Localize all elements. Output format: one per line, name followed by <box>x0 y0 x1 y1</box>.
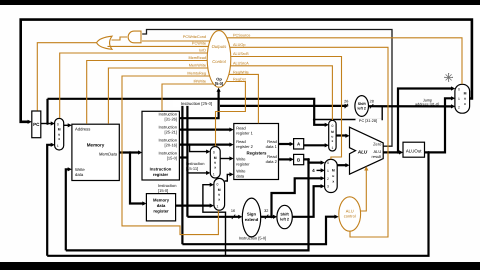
svg-text:32: 32 <box>264 209 268 213</box>
register Memory data register <box>146 194 175 221</box>
circle jump Shift left 2 <box>355 96 369 117</box>
svg-text:0: 0 <box>217 182 219 186</box>
wire ALUOut feedback riser into IorD mux input1 <box>47 145 53 256</box>
svg-text:MemtoReg: MemtoReg <box>187 71 206 75</box>
letterbox top bar <box>0 0 480 5</box>
junction PC[31-28] tap <box>313 118 316 121</box>
svg-text:Control: Control <box>212 59 227 64</box>
svg-text:[20-16]: [20-16] <box>165 143 177 148</box>
svg-text:Memory: Memory <box>153 198 170 203</box>
svg-text:16: 16 <box>231 209 235 213</box>
register Instruction register <box>142 111 179 180</box>
svg-text:ALUOut: ALUOut <box>406 148 422 153</box>
wire PC main line across to ALUSrcA mux input 0 <box>48 99 327 125</box>
register PC <box>32 111 41 138</box>
wire ALUSrcA out to ALU <box>336 134 347 136</box>
svg-text:Memory: Memory <box>87 143 105 148</box>
svg-text:PC: PC <box>33 122 40 127</box>
register A <box>294 139 304 149</box>
register ALUOut <box>403 142 425 157</box>
wire bottom bus1 B register to memory write data <box>66 159 309 250</box>
wire IorD mux out to Memory Address <box>64 124 70 126</box>
svg-text:register: register <box>236 161 250 166</box>
mux PCSource <box>455 84 470 113</box>
control left signal MemWrite <box>108 68 207 124</box>
wire 4 to ALUSrcB input1 <box>317 169 323 171</box>
svg-text:M: M <box>332 169 335 173</box>
svg-text:Zero: Zero <box>373 142 382 147</box>
wire Read data 1 to A <box>279 143 292 145</box>
svg-text:28: 28 <box>370 100 374 104</box>
svg-text:IRWrite: IRWrite <box>193 79 206 83</box>
wire sign extend out to shift left 2 <box>261 216 275 218</box>
svg-text:PCSource: PCSource <box>233 34 250 38</box>
junction Instruction[20-16] tap <box>188 143 190 145</box>
svg-text:address [31-0]: address [31-0] <box>415 102 439 106</box>
node PC[31-28] label <box>356 119 382 123</box>
control left signal MemtoReg <box>122 76 218 235</box>
junction ALUOut split <box>427 151 430 154</box>
svg-text:2: 2 <box>327 177 329 181</box>
wire MDR out to MemtoReg mux input1 <box>176 205 212 207</box>
mux MemtoReg <box>214 178 225 210</box>
mux ALUSrcB <box>325 159 338 192</box>
wire IR[25-21] to Read register 1 <box>179 129 231 131</box>
alu ALU <box>350 127 384 174</box>
svg-text:data: data <box>236 173 245 178</box>
wire PC out to IorD mux and riser to main PC line <box>41 123 53 125</box>
circle Shift left 2 <box>277 205 292 228</box>
wire ALUOut out to PCSource input1 <box>425 98 453 152</box>
wire Zero from ALU to AND gate <box>142 30 392 147</box>
svg-text:register: register <box>153 172 169 177</box>
svg-text:ALUOp: ALUOp <box>233 43 245 47</box>
control right signal ALUSrcB <box>231 57 342 160</box>
wire OR out to PC enable <box>37 43 96 111</box>
svg-text:left 2: left 2 <box>280 217 289 221</box>
svg-text:[5-0]: [5-0] <box>215 81 224 86</box>
mux IorD <box>55 118 64 150</box>
svg-text:u: u <box>464 97 466 101</box>
wire vertical v1 from bus down to Instr5-0 line <box>181 106 183 244</box>
register B <box>294 154 304 164</box>
svg-text:register: register <box>153 208 169 213</box>
control right signal RegDst <box>216 82 246 147</box>
wire Instruction[5-0] line to ALU control <box>182 217 336 245</box>
svg-text:x: x <box>58 137 60 141</box>
svg-text:0: 0 <box>331 124 333 128</box>
wire sign extend up path to ALUSrcB input2 <box>272 178 323 217</box>
wire [15-11] tap to RegDst mux input1 <box>187 172 208 174</box>
control left signal PCWriteCond <box>142 40 210 42</box>
oval ALU control <box>339 197 361 231</box>
wire PC feedback loop from PCSource mux around top to PC <box>21 20 472 122</box>
wire vertical v2 from bus down to sign extend row <box>186 106 188 217</box>
svg-text:x: x <box>332 139 334 143</box>
gate AND <box>128 31 141 43</box>
wire Instruction[25-0] bus to jump shift <box>181 105 346 107</box>
svg-text:0: 0 <box>213 150 215 154</box>
svg-text:Shift: Shift <box>280 213 289 217</box>
wire ALU control output to ALU <box>361 169 367 211</box>
node snowflake marker <box>444 73 453 82</box>
wire bottom bus2 ALUOut feedback <box>47 152 428 255</box>
svg-text:x: x <box>214 165 216 169</box>
control right signal PCSource <box>227 38 462 84</box>
svg-text:1: 1 <box>57 144 59 148</box>
svg-text:PCWriteCond: PCWriteCond <box>183 35 206 39</box>
gate OR <box>97 36 112 49</box>
svg-text:IorD: IorD <box>199 49 206 53</box>
letterbox bottom bar <box>0 262 480 270</box>
wire [15-0] into sign extend <box>187 216 240 218</box>
junction PC-out split <box>46 122 49 125</box>
svg-text:26: 26 <box>344 100 348 104</box>
svg-text:Instruction: Instruction <box>150 167 172 172</box>
svg-text:[25-21]: [25-21] <box>165 130 177 135</box>
svg-text:RegDst: RegDst <box>233 77 247 81</box>
svg-text:left 2: left 2 <box>358 107 366 111</box>
oval Control unit <box>207 31 231 88</box>
svg-text:[15-11]: [15-11] <box>186 166 198 171</box>
mux ALUSrcA <box>329 120 336 151</box>
svg-text:x: x <box>218 197 220 201</box>
svg-text:MemRead: MemRead <box>188 56 206 60</box>
wire PC[31-28] tap <box>314 106 382 120</box>
junction ALU-result split <box>397 151 400 154</box>
svg-text:[15-0]: [15-0] <box>167 156 177 161</box>
svg-text:u: u <box>331 135 333 139</box>
wire IR[15-0] row into v2 <box>179 156 187 158</box>
wire IR[31-26] row and riser to control <box>179 90 218 118</box>
svg-text:Registers: Registers <box>246 150 267 155</box>
svg-text:register 2: register 2 <box>236 144 253 149</box>
wire MemData branch to MDR <box>130 153 144 204</box>
wire B out to ALUSrcB mux input0 <box>304 159 323 162</box>
svg-text:RegWrite: RegWrite <box>233 70 249 74</box>
wire ALU result to ALUOut <box>383 151 401 153</box>
wire ALUSrcB out to ALU <box>337 164 347 166</box>
wire jump shift out / jump address to PCSource input2 <box>369 105 453 107</box>
svg-text:register 1: register 1 <box>236 130 253 135</box>
svg-text:u: u <box>218 193 220 197</box>
memory Memory unit <box>72 124 119 180</box>
svg-text:1: 1 <box>327 169 329 173</box>
junction MemData split <box>129 151 132 154</box>
svg-text:Sign: Sign <box>247 211 257 216</box>
svg-text:x: x <box>332 179 334 183</box>
svg-text:data: data <box>75 172 84 177</box>
svg-text:2: 2 <box>458 106 460 110</box>
svg-text:ALUSrcA: ALUSrcA <box>233 61 249 65</box>
svg-text:data: data <box>157 203 166 208</box>
control left signal PCWrite <box>108 45 209 47</box>
svg-text:data 2: data 2 <box>266 159 278 164</box>
svg-text:1: 1 <box>458 97 460 101</box>
svg-text:[31-26]: [31-26] <box>165 116 177 121</box>
svg-text:u: u <box>58 132 60 136</box>
wire A out to ALUSrcA mux input1 <box>304 144 327 146</box>
node Instruction [25-0] label <box>173 100 220 107</box>
svg-text:0: 0 <box>458 88 460 92</box>
control right signal ALUSrcA <box>230 66 332 120</box>
svg-text:Outputs: Outputs <box>212 44 228 49</box>
svg-text:Shift: Shift <box>358 102 367 106</box>
svg-text:extend: extend <box>245 217 259 222</box>
svg-text:0: 0 <box>57 122 59 126</box>
wire shift left 2 out to ALUSrcB input3 <box>292 186 322 217</box>
control left signal IorD <box>60 53 208 118</box>
svg-text:M: M <box>214 156 217 160</box>
svg-text:1: 1 <box>331 146 333 150</box>
svg-text:M: M <box>464 91 467 95</box>
svg-text:u: u <box>332 174 334 178</box>
wire ALUOut feedback riser to MemtoReg mux input0 <box>203 185 226 256</box>
wire MemtoReg mux out to Write data <box>225 174 232 181</box>
svg-text:Address: Address <box>75 126 90 131</box>
svg-text:control: control <box>344 213 356 218</box>
svg-text:MemData: MemData <box>99 151 118 156</box>
wire RegDst mux out to Write register <box>220 158 231 160</box>
control right signal RegWrite <box>229 74 259 123</box>
control left signal MemRead <box>87 61 208 124</box>
svg-text:0: 0 <box>327 161 329 165</box>
wire IR[20-16] to Read register 2 <box>179 144 231 146</box>
svg-text:x: x <box>464 102 466 106</box>
svg-text:u: u <box>214 161 216 165</box>
wire IR[20-16] jog to RegDst mux input0 <box>190 145 209 152</box>
svg-text:4: 4 <box>312 168 315 173</box>
svg-text:result: result <box>372 154 383 159</box>
wire Read data 2 to B <box>279 158 292 160</box>
junction B-out split <box>307 158 310 161</box>
wire AND out to OR input <box>112 37 128 40</box>
svg-text:M: M <box>58 128 61 132</box>
svg-text:B: B <box>297 158 300 163</box>
svg-text:1: 1 <box>217 205 219 209</box>
wire ALU result riser to PCSource input0 <box>398 89 453 153</box>
wire PC line1 riser <box>46 99 48 124</box>
svg-text:ALU: ALU <box>357 150 368 155</box>
svg-text:1: 1 <box>213 172 215 176</box>
svg-text:PCWrite: PCWrite <box>192 41 206 45</box>
svg-text:Instruction [25-0]: Instruction [25-0] <box>181 101 212 106</box>
register file Registers <box>234 124 279 180</box>
svg-text:M: M <box>218 188 221 192</box>
svg-text:M: M <box>331 130 334 134</box>
wire MemData to IR <box>119 151 140 153</box>
svg-text:MemWrite: MemWrite <box>189 64 206 68</box>
control right signal ALUOp <box>230 47 388 237</box>
svg-text:data 1: data 1 <box>266 144 278 149</box>
circle Sign extend <box>242 198 260 237</box>
control left signal IRWrite <box>162 84 214 111</box>
mux RegDst <box>210 147 220 179</box>
svg-text:3: 3 <box>327 185 329 189</box>
svg-text:[15-0]: [15-0] <box>158 188 168 193</box>
svg-text:ALUSrcB: ALUSrcB <box>233 52 249 56</box>
svg-text:PC [31-28]: PC [31-28] <box>359 119 377 123</box>
